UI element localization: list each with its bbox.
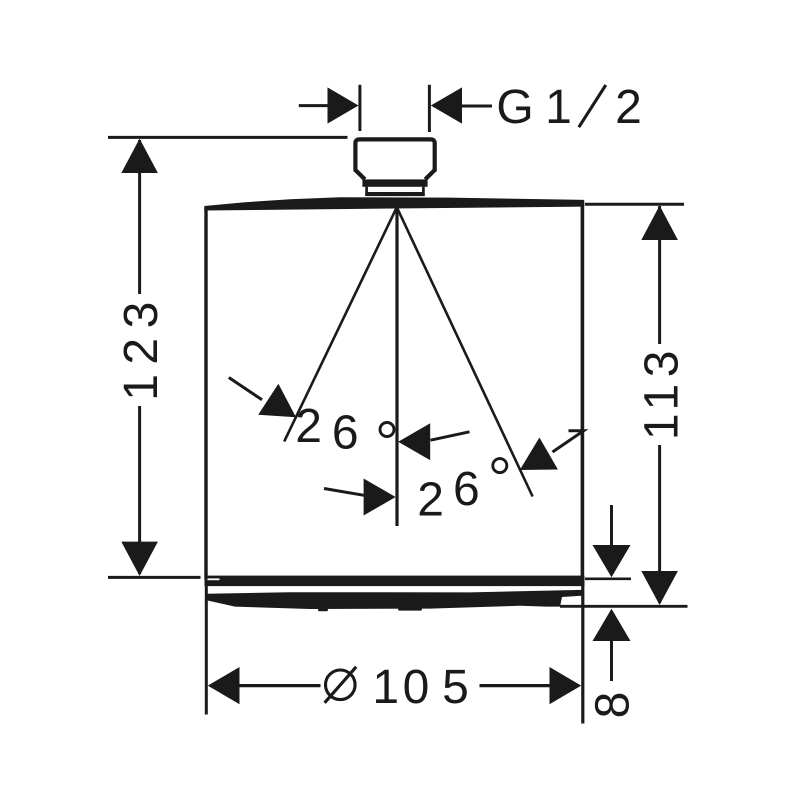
dim 113 top arrowhead (641, 206, 678, 241)
dim 113 bottom arrowhead (641, 571, 678, 605)
dim 105 right extension line (581, 580, 584, 724)
body right edge (581, 202, 585, 579)
diameter symbol slash (325, 667, 357, 703)
angle arrow C (364, 479, 396, 516)
diameter symbol circle (326, 670, 356, 700)
angle label 26 deg second: degree circle (493, 459, 507, 473)
connector chamfer left (355, 170, 365, 179)
dim 113 top reference line (585, 203, 684, 206)
dim 105 left extension line (205, 582, 208, 715)
G1/2 right leader (462, 105, 492, 108)
G1/2 left leader (299, 104, 328, 107)
dim 8 upper line (610, 505, 613, 548)
connector lower box bottom line (365, 193, 425, 196)
dim 113 line upper segment (658, 206, 661, 344)
connector G1/2 outer (355, 139, 434, 171)
dim 105 left arrowhead (208, 667, 240, 704)
svg-text:5: 5 (442, 661, 469, 714)
connector lower box (367, 187, 424, 194)
svg-text:123: 123 (115, 292, 168, 401)
body top edge wedge (204, 197, 584, 210)
angle arrow A (258, 384, 296, 418)
svg-text:113: 113 (635, 344, 688, 440)
spray nozzle nub (398, 608, 422, 610)
spray nozzle nub (318, 609, 328, 612)
angle left ray (284, 209, 396, 442)
G1/2 label (496, 81, 642, 134)
face plate lower band (207, 590, 582, 609)
G1/2 right extension line (428, 85, 431, 132)
angle label 26 deg first: degree circle (380, 423, 394, 437)
dim 123 line lower segment (138, 406, 141, 574)
body left edge (204, 208, 207, 580)
dim 113 line lower segment (658, 445, 661, 603)
svg-text:6: 6 (332, 406, 359, 459)
svg-text:0: 0 (403, 661, 430, 714)
dim 105 right arrowhead (550, 667, 582, 704)
G1/2 right arrowhead (431, 87, 462, 123)
angle arrow D (520, 438, 558, 471)
angle arrow B (398, 423, 430, 460)
connector chamfer right (425, 170, 435, 179)
face plate left notch (208, 578, 220, 580)
svg-text:G: G (496, 81, 533, 134)
dim 8 upper arrowhead (593, 545, 631, 577)
svg-text:8: 8 (587, 692, 640, 719)
dim 123 top arrowhead (121, 139, 158, 173)
svg-text:2: 2 (417, 474, 444, 527)
dim 123 bottom reference line (108, 576, 201, 579)
dim 123 bottom arrowhead (121, 542, 158, 576)
angle arrow B leader (431, 432, 470, 440)
body bottom edge and face plate top band (205, 576, 585, 587)
svg-text:2: 2 (295, 400, 322, 453)
G1/2 left extension line (358, 85, 361, 131)
dim 105 line left segment (239, 684, 321, 687)
dim 8 lower line (610, 641, 613, 681)
connector flange bar (362, 179, 427, 186)
dim 105 line right segment (480, 684, 554, 687)
dim 123 line upper segment (138, 140, 141, 294)
dim 113 / 8 bottom reference line (560, 605, 688, 608)
G1/2 slash (579, 85, 606, 127)
G1/2 left arrowhead (328, 87, 359, 123)
angle arrow C leader (324, 489, 364, 496)
dim 8 lower arrowhead (593, 609, 631, 641)
angle center line (395, 209, 398, 527)
dim 123 top reference line (108, 136, 348, 139)
svg-text:6: 6 (453, 463, 480, 516)
angle arrow A leader (229, 378, 262, 400)
dim 8 top reference line (585, 577, 631, 580)
angle right ray (397, 209, 532, 497)
svg-text:1: 1 (545, 81, 572, 134)
svg-text:1: 1 (372, 661, 399, 714)
angle arrow D leader (553, 431, 584, 452)
svg-text:2: 2 (615, 81, 642, 134)
